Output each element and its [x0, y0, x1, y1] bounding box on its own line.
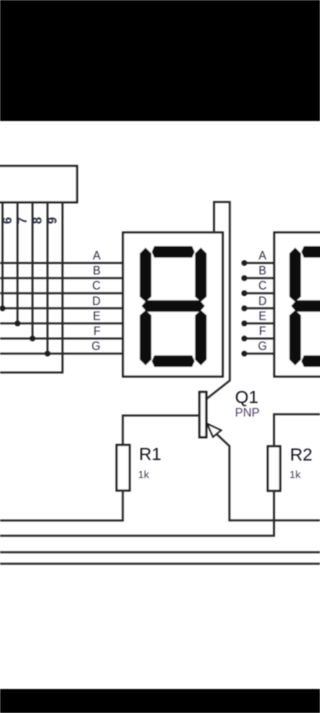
- terminal dot E (DS2): [241, 321, 247, 327]
- DS1 segment c: [195, 310, 207, 365]
- DS1 segment g: [142, 300, 205, 312]
- wire stub C to DS2: [244, 292, 274, 294]
- junction dot bus F / pin wire: [30, 336, 36, 342]
- wire bus A (left): [0, 262, 123, 264]
- DS2 segment a: [301, 246, 320, 258]
- resistor R2 body: [268, 446, 280, 491]
- wire bus C (left): [0, 292, 123, 294]
- svg-text:B: B: [93, 266, 101, 278]
- svg-text:R2: R2: [290, 445, 312, 465]
- svg-text:Q1: Q1: [235, 387, 258, 407]
- terminal dot D (DS2): [241, 305, 247, 311]
- 7-segment display DS2 body (cut off at right edge): [274, 233, 320, 377]
- svg-text:A: A: [259, 251, 267, 263]
- svg-text:R1: R1: [139, 444, 161, 464]
- wire stub B to DS2: [244, 277, 274, 279]
- svg-text:D: D: [92, 296, 100, 308]
- svg-text:9: 9: [45, 217, 59, 224]
- 7-segment display DS1 body: [123, 233, 223, 377]
- wire bus E (left): [0, 322, 123, 324]
- terminal dot G (DS2): [241, 351, 247, 357]
- wire stub D to DS2: [244, 307, 274, 309]
- svg-text:G: G: [258, 341, 267, 353]
- wire stub E to DS2: [244, 322, 274, 324]
- wire DS1 common pin over top and down to Q1 collector: [206, 202, 229, 399]
- wire stub G to DS2: [244, 353, 274, 355]
- Q1 emitter arrow (PNP, pointing at base): [207, 424, 221, 437]
- DS1 segment f: [140, 248, 152, 302]
- svg-text:E: E: [259, 311, 267, 323]
- DS2 segment e: [289, 310, 301, 365]
- wire bus G (left): [0, 353, 123, 355]
- svg-text:A: A: [93, 251, 101, 263]
- svg-text:6: 6: [0, 217, 14, 224]
- horizontal rail 1 (full width): [0, 551, 320, 553]
- bottom letterbox bar: [0, 689, 320, 713]
- top letterbox bar: [0, 0, 320, 121]
- wire IC pin 7 down to bus F: [32, 202, 34, 338]
- svg-text:G: G: [92, 341, 101, 353]
- DS2 segment g: [291, 300, 320, 312]
- wire IC pin 5 down to bus D: [2, 202, 4, 308]
- svg-text:1k: 1k: [290, 469, 302, 481]
- transistor Q1 base bar: [200, 392, 207, 437]
- svg-text:E: E: [93, 311, 101, 323]
- svg-text:F: F: [93, 326, 100, 338]
- wire IC pin 9 down then left off-screen: [0, 202, 63, 372]
- svg-text:C: C: [258, 281, 266, 293]
- junction dot bus E / pin wire: [15, 321, 21, 327]
- svg-text:D: D: [258, 296, 266, 308]
- horizontal rail 2 (full width): [0, 563, 320, 565]
- wire IC pin 8 down to bus G: [47, 202, 49, 353]
- Q1 emitter wire (diagonal, down, right rail): [206, 425, 320, 521]
- wire R1 bottom down then left off-screen: [0, 491, 123, 521]
- IC U1 body (cut off at left edge): [0, 166, 77, 202]
- svg-text:F: F: [259, 326, 266, 338]
- DS1 segment e: [140, 310, 152, 365]
- svg-text:7: 7: [15, 217, 29, 224]
- DS1 segment b: [195, 248, 207, 302]
- wire Q1 base to R1 top: [123, 416, 200, 446]
- DS2 segment f: [289, 248, 301, 302]
- svg-text:8: 8: [30, 217, 44, 224]
- terminal dot B (DS2): [241, 275, 247, 281]
- wire bus F (left): [0, 338, 123, 340]
- wire R2 bottom down then left off-screen: [0, 491, 274, 536]
- svg-text:C: C: [92, 281, 100, 293]
- terminal dot F (DS2): [241, 336, 247, 342]
- DS1 segment a: [152, 246, 195, 258]
- wire IC pin 6 down to bus E: [17, 202, 19, 323]
- wire R2 top up then right off-screen (to Q2 base): [274, 414, 320, 446]
- svg-text:1k: 1k: [138, 469, 150, 481]
- DS1 segment d: [152, 355, 195, 367]
- terminal dot C (DS2): [241, 290, 247, 296]
- terminal dot A (DS2): [241, 260, 247, 266]
- junction dot bus G / pin wire: [45, 351, 51, 357]
- DS2 segment d: [301, 355, 320, 367]
- resistor R1 body: [117, 445, 130, 491]
- junction dot bus D / pin wire: [0, 305, 5, 311]
- svg-text:PNP: PNP: [235, 406, 260, 420]
- wire bus D (left): [0, 307, 123, 309]
- svg-text:B: B: [259, 266, 267, 278]
- wire stub A to DS2: [244, 262, 274, 264]
- wire bus B (left): [0, 277, 123, 279]
- wire stub F to DS2: [244, 338, 274, 340]
